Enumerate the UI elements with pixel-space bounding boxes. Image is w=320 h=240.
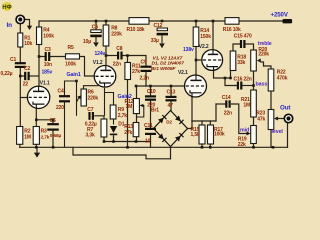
wire C7 to R7 <box>94 106 144 120</box>
svg-text:47: 47 <box>168 103 174 109</box>
wire V2.2 plate to rail <box>212 21 214 50</box>
wire R9 to D1 <box>113 119 115 125</box>
svg-text:150k: 150k <box>200 34 211 40</box>
wire V2.1 cathode down <box>191 98 193 121</box>
wire C13 drop from grid bus <box>170 86 172 96</box>
resistor R21 <box>241 90 256 117</box>
capacitor C1 <box>1 57 26 77</box>
svg-text:22n: 22n <box>224 111 232 117</box>
svg-text:100k: 100k <box>43 34 54 40</box>
svg-text:C2: C2 <box>24 66 30 72</box>
logo НФ <box>2 2 11 11</box>
ground <box>34 147 40 157</box>
resistor R10 <box>127 18 150 33</box>
wire R7 bottom <box>103 137 105 142</box>
wire cathode branch to C5 <box>36 120 53 124</box>
svg-text:10n: 10n <box>44 62 52 68</box>
wire grid node to C2 <box>20 75 24 77</box>
capacitor C10 <box>145 89 156 109</box>
wire C13 to bridge top <box>170 100 172 110</box>
capacitor C2 <box>23 66 31 88</box>
resistor R13 <box>124 123 139 137</box>
svg-text:+250V: +250V <box>271 11 289 18</box>
svg-text:Br1 W005F: Br1 W005F <box>151 66 176 72</box>
svg-text:C12: C12 <box>154 23 163 29</box>
svg-text:220k: 220k <box>111 32 122 38</box>
capacitor C8 <box>113 46 123 68</box>
wire R20 wiper line <box>261 62 264 66</box>
wire Gain2 R12 top <box>136 86 138 99</box>
resistor R14 <box>193 27 211 47</box>
In jack X1 <box>16 15 24 23</box>
diode D1 <box>110 122 125 138</box>
wire C14 to mid wiper <box>232 104 249 134</box>
capacitor C7 <box>85 107 97 127</box>
svg-text:Br1: Br1 <box>151 108 159 114</box>
svg-text:220k: 220k <box>258 52 269 58</box>
svg-text:47k: 47k <box>257 116 265 122</box>
wire R8 from rail <box>105 21 107 25</box>
resistor R4 <box>37 27 55 45</box>
chassis arrow under C6 <box>93 42 99 47</box>
svg-text:27k: 27k <box>132 69 140 75</box>
wire C11 to mid ground bus <box>150 135 152 142</box>
wire bridge right corner to R15 R17 top rail <box>188 121 193 129</box>
wire R8 to V1.2 plate, 124v node <box>105 46 107 66</box>
svg-text:R16 10k: R16 10k <box>223 27 241 33</box>
wire R3 to ground bus <box>35 144 37 147</box>
capacitor C11 <box>144 123 156 145</box>
wire jack to R1 <box>19 24 21 33</box>
wire R11 stub <box>127 56 129 63</box>
svg-text:1,5k: 1,5k <box>191 132 201 138</box>
wire C2 to V1.1 grid <box>29 75 39 77</box>
svg-text:470k: 470k <box>277 75 288 81</box>
svg-text:220: 220 <box>56 105 64 111</box>
wire C8 to R11 top and C9 chain <box>123 56 146 67</box>
wire R5 to V1.2 grid <box>80 57 95 77</box>
resistor R18 <box>230 51 246 71</box>
wire C6 to chassis arrow <box>95 37 97 42</box>
wire plate node to C3 <box>39 56 46 58</box>
svg-text:C3: C3 <box>45 47 51 53</box>
svg-text:bass: bass <box>256 81 268 87</box>
wire In jack to chassis arrow <box>25 20 30 27</box>
svg-text:100k: 100k <box>65 61 76 67</box>
wire R22 top feed <box>264 66 272 69</box>
wire R21 to R19 <box>253 117 255 126</box>
resistor R8 <box>103 25 122 46</box>
svg-text:10µ: 10µ <box>83 39 91 45</box>
svg-text:V2.2: V2.2 <box>199 44 209 50</box>
wire Out jack to level wiper <box>277 118 285 120</box>
svg-text:In: In <box>7 22 13 29</box>
capacitor C15 <box>234 33 252 48</box>
wire R13 bottom <box>136 137 138 142</box>
svg-text:138v: 138v <box>183 47 194 53</box>
ground bus A <box>20 146 288 148</box>
wire C16 to R21 node <box>241 85 253 87</box>
svg-text:10k: 10k <box>24 41 32 47</box>
wire C6 from rail <box>95 21 97 31</box>
capacitor C3 <box>44 47 52 68</box>
resistor R16 <box>223 18 241 33</box>
svg-text:D2: D2 <box>166 119 172 124</box>
svg-text:2,2n: 2,2n <box>140 76 150 82</box>
wire C15 to R20 top <box>246 44 254 50</box>
svg-text:R10 18k: R10 18k <box>127 27 145 33</box>
svg-text:33k: 33k <box>237 60 245 66</box>
resistor R1 <box>18 33 33 47</box>
svg-text:C15 470: C15 470 <box>234 33 252 39</box>
svg-text:C9: C9 <box>141 60 147 66</box>
resistor R5 <box>65 45 79 68</box>
wire R15 bottom <box>201 144 203 147</box>
wire R14 top to rail <box>195 21 197 27</box>
capacitor C5 <box>47 118 61 139</box>
wire V2.1 plate to R14, V2.2 grid node <box>195 47 197 76</box>
wire V2.2 grid <box>196 59 202 61</box>
resistor R9 <box>110 105 127 119</box>
svg-text:3,3k: 3,3k <box>86 132 96 138</box>
svg-text:1M: 1M <box>24 134 31 140</box>
wire R15 top stub <box>201 121 203 125</box>
svg-text:0,22µ: 0,22µ <box>1 71 13 77</box>
potentiometer R22 bass <box>268 69 287 91</box>
wire R17 bottom <box>209 144 211 147</box>
svg-text:C13: C13 <box>167 90 176 96</box>
resistor R3 <box>33 127 50 145</box>
svg-text:2,7k: 2,7k <box>41 134 50 140</box>
wire R19 bottom to ground bus <box>253 144 255 148</box>
wire C10 chain <box>150 86 152 96</box>
wire C5 to ground bus <box>52 131 54 148</box>
wire bridge left corner stub <box>151 128 154 130</box>
chassis arrow at In jack <box>27 26 32 30</box>
resistor R11 <box>125 63 141 80</box>
svg-text:185v: 185v <box>42 70 53 76</box>
wire C3 to R5 <box>50 56 66 58</box>
svg-text:V1.2: V1.2 <box>93 60 103 66</box>
svg-text:C6: C6 <box>92 25 98 31</box>
svg-text:22k: 22k <box>238 142 246 148</box>
wire ground bus to Out jack sleeve <box>287 123 289 147</box>
chassis arrow under C12 <box>159 35 165 49</box>
svg-text:C8: C8 <box>116 46 122 52</box>
potentiometer R23 level <box>256 110 278 130</box>
wire R20 bottom to C16 node and R21 <box>253 71 255 90</box>
wire R17 top stub <box>209 121 211 125</box>
wire R18 bottom to cathode bus <box>230 71 232 79</box>
svg-text:27k: 27k <box>124 130 132 136</box>
wire R2 to ground bus <box>19 144 21 147</box>
bridge rectifier Br1 <box>151 108 188 147</box>
capacitor C4 <box>56 89 70 112</box>
wire C4 top to wiper line <box>65 81 77 147</box>
ground bus lower loop <box>73 147 171 159</box>
wire 124v node to C8 <box>106 55 117 57</box>
svg-text:D1, D2 1N4007: D1, D2 1N4007 <box>152 61 185 67</box>
svg-text:220k: 220k <box>88 96 99 102</box>
resistor R15 <box>191 125 206 144</box>
potentiometer R19 mid <box>238 126 256 149</box>
wire C9 to mid node wire <box>145 72 147 86</box>
svg-text:124v: 124v <box>95 51 106 57</box>
svg-text:1M: 1M <box>126 104 133 110</box>
svg-text:Out: Out <box>280 105 290 112</box>
tube half V1.2 <box>93 60 116 87</box>
svg-text:V1, V2 12AX7: V1, V2 12AX7 <box>153 55 183 61</box>
svg-text:2,7k: 2,7k <box>118 113 128 119</box>
svg-text:22n: 22n <box>113 62 121 68</box>
resistor R7 <box>86 119 107 138</box>
svg-text:C16 22n: C16 22n <box>234 77 252 83</box>
svg-text:V2.1: V2.1 <box>178 70 188 76</box>
svg-text:1M: 1M <box>243 103 250 109</box>
wire C1 to grid node and down to R2 <box>19 68 21 127</box>
svg-text:33µ: 33µ <box>151 38 159 44</box>
svg-text:0,68µ: 0,68µ <box>50 133 62 139</box>
wire R1 to C1 <box>19 47 21 62</box>
wire V1.1 cathode to R3 <box>35 108 37 127</box>
svg-text:C7: C7 <box>87 107 93 113</box>
tube half V1.1 <box>27 80 49 108</box>
resistor R2 <box>17 127 31 145</box>
wire C10 to C11 <box>150 100 152 128</box>
wire V2.2 cathode bus <box>214 71 231 79</box>
svg-text:100k: 100k <box>214 132 225 138</box>
wire bridge bottom to bus <box>170 147 172 159</box>
capacitor C13 <box>166 90 177 110</box>
wire D1 bottom <box>113 137 115 142</box>
tube half V2.2 <box>199 44 223 71</box>
wire mid ground bus <box>104 142 151 148</box>
capacitor C16 <box>234 77 252 90</box>
capacitor C9 <box>140 60 152 82</box>
resistor R17 <box>208 125 225 144</box>
wire top B+ rail <box>39 21 129 27</box>
svg-text:V1.1: V1.1 <box>40 80 50 86</box>
potentiometer R20 treble <box>251 47 270 71</box>
svg-text:Gain1: Gain1 <box>67 72 81 78</box>
supply +250V arrow <box>271 11 293 23</box>
wire V2.1 grid bus <box>136 85 185 87</box>
svg-text:C10: C10 <box>147 89 156 95</box>
svg-text:R5: R5 <box>68 45 74 51</box>
svg-text:22: 22 <box>23 82 29 88</box>
wire R12 to R13 <box>136 114 138 123</box>
capacitor C6 <box>83 25 102 45</box>
svg-text:R3: R3 <box>41 128 47 134</box>
wire C14 mid branch <box>216 103 225 105</box>
wire R11 bottom to ground bus <box>127 80 129 148</box>
svg-text:НФ: НФ <box>2 5 11 11</box>
wire R6 top to V1.2 cathode bus <box>84 86 114 116</box>
svg-text:C14: C14 <box>222 95 231 101</box>
svg-text:C1: C1 <box>10 57 16 63</box>
svg-text:C5: C5 <box>50 118 56 124</box>
wire R22 bottom to R23 top <box>270 91 272 110</box>
wire R4 to plate node of V1.1 <box>38 45 40 87</box>
wire R23 chain to ground bus <box>270 130 272 148</box>
svg-text:10: 10 <box>145 139 151 145</box>
wire cathode bus down to C16 wire <box>225 78 237 86</box>
wire R18 top to C15 <box>233 44 240 51</box>
capacitor C12 <box>151 23 168 44</box>
Out jack X2 <box>284 114 292 122</box>
capacitor C14 <box>222 95 232 117</box>
svg-text:C11: C11 <box>144 123 153 129</box>
potentiometer R12 Gain2 <box>125 99 144 114</box>
svg-text:level: level <box>272 129 284 135</box>
potentiometer R6 <box>81 89 98 106</box>
tube half V2.1 <box>178 70 207 98</box>
potentiometer R6 Gain1 wiper arrow <box>77 95 82 102</box>
svg-text:C4: C4 <box>58 89 64 95</box>
